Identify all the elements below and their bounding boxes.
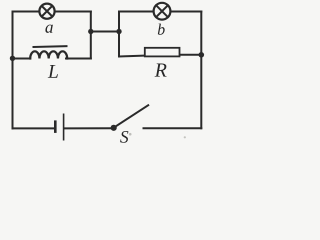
- wire left vertical: [12, 12, 14, 129]
- battery positive plate (long thin): [63, 114, 65, 141]
- wire left-loop bottom right stub: [66, 58, 91, 60]
- wire top-left to lamp a: [13, 11, 40, 13]
- lamp b: [154, 3, 171, 20]
- wire right-loop top-left to lamp b: [119, 11, 153, 13]
- lamp a: [39, 4, 54, 19]
- wire right-loop left vertical: [118, 12, 120, 57]
- wire left-loop right vertical: [90, 12, 92, 59]
- wire right-loop bottom left stub: [119, 56, 147, 57]
- wire middle connector: [91, 31, 119, 33]
- wire right-loop bottom right stub: [179, 54, 202, 56]
- label S: [120, 131, 128, 143]
- wire bottom left to battery: [13, 127, 55, 129]
- wire switch to bottom-right corner: [144, 127, 202, 129]
- node middle connector left: [88, 29, 93, 34]
- node middle connector right: [116, 29, 121, 34]
- switch S arm: [114, 105, 149, 128]
- wire left-loop bottom left stub: [13, 58, 31, 60]
- wire battery to switch: [65, 127, 113, 129]
- node switch pivot: [111, 125, 117, 131]
- inductor L coil: [30, 51, 67, 58]
- label R: [155, 64, 167, 77]
- label a: [45, 25, 52, 33]
- resistor R: [145, 48, 180, 57]
- wire lamp a to left-loop top-right corner: [55, 11, 91, 13]
- node bottom-left junction: [10, 56, 15, 61]
- battery negative plate (short thick): [54, 120, 57, 132]
- label L: [48, 65, 58, 78]
- wire right vertical: [200, 12, 202, 129]
- node right junction: [199, 52, 205, 58]
- label b: [158, 24, 165, 35]
- wire lamp b to top-right corner: [171, 11, 202, 13]
- inductor core bar: [34, 45, 67, 48]
